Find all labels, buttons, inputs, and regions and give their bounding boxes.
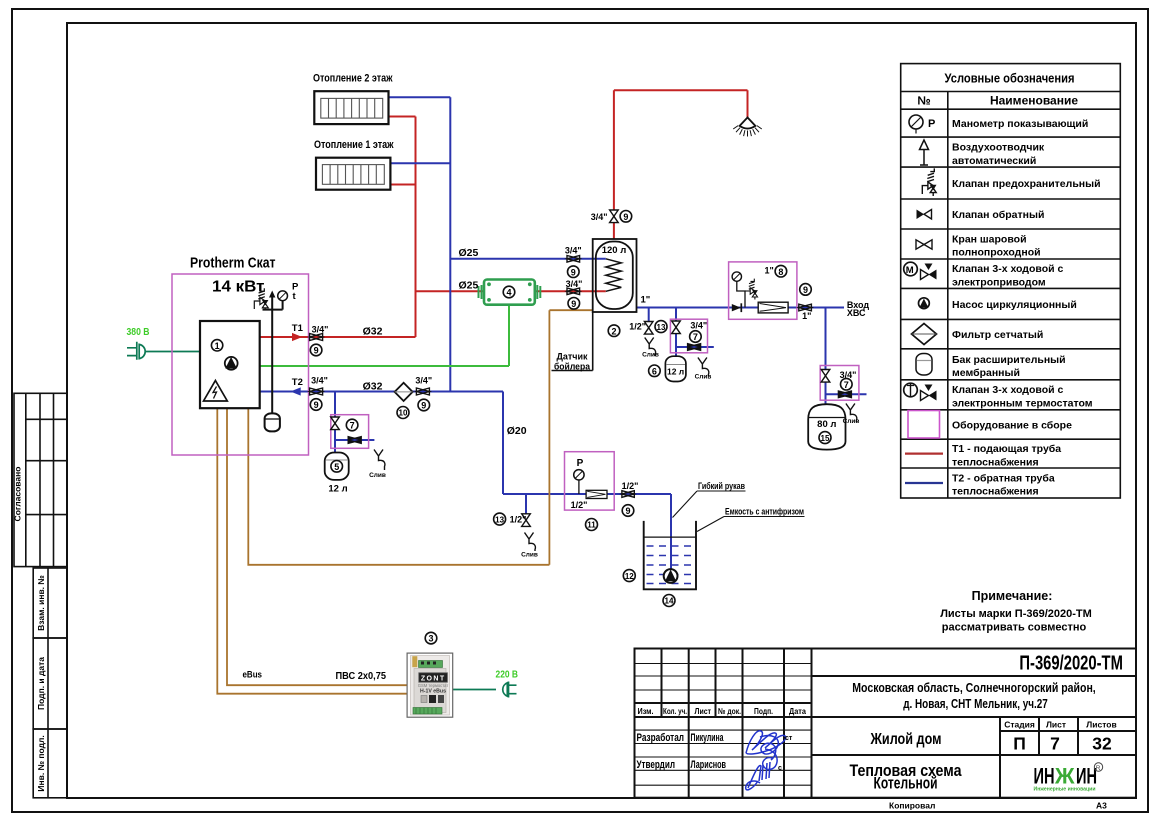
svg-text:Примечание:: Примечание: bbox=[972, 589, 1053, 603]
svg-text:Ø25: Ø25 bbox=[459, 279, 479, 291]
svg-text:3/4": 3/4" bbox=[591, 212, 608, 222]
svg-text:Лист: Лист bbox=[695, 706, 712, 716]
svg-text:Инв. № подл.: Инв. № подл. bbox=[36, 735, 46, 791]
svg-text:3/4": 3/4" bbox=[565, 246, 582, 256]
svg-text:ст: ст bbox=[785, 735, 793, 742]
svg-text:eBus: eBus bbox=[243, 670, 263, 681]
svg-text:Пикулина: Пикулина bbox=[691, 732, 725, 744]
svg-text:1/2": 1/2" bbox=[622, 481, 639, 491]
svg-text:Protherm Скат: Protherm Скат bbox=[190, 256, 276, 272]
svg-text:9: 9 bbox=[623, 212, 628, 222]
svg-text:Копировал: Копировал bbox=[889, 801, 935, 811]
svg-text:Изм.: Изм. bbox=[638, 706, 654, 716]
svg-text:2: 2 bbox=[611, 326, 616, 336]
svg-text:Клапан обратный: Клапан обратный bbox=[952, 209, 1044, 221]
svg-text:12 л: 12 л bbox=[328, 484, 347, 495]
svg-text:1/2": 1/2" bbox=[629, 322, 646, 332]
svg-text:9: 9 bbox=[421, 401, 426, 411]
svg-text:80 л: 80 л bbox=[817, 419, 836, 430]
svg-text:бойлера: бойлера bbox=[554, 362, 591, 372]
svg-text:Гибкий рукав: Гибкий рукав bbox=[698, 481, 745, 492]
svg-text:автоматический: автоматический bbox=[952, 155, 1036, 167]
svg-text:1/2": 1/2" bbox=[510, 515, 527, 525]
svg-text:Лист: Лист bbox=[1046, 720, 1066, 730]
svg-text:Ø32: Ø32 bbox=[363, 326, 383, 338]
svg-text:А3: А3 bbox=[1096, 801, 1107, 811]
svg-text:Дата: Дата bbox=[789, 706, 806, 716]
svg-text:3/4": 3/4" bbox=[311, 376, 328, 386]
svg-text:Слив: Слив bbox=[843, 418, 860, 425]
svg-text:Ø20: Ø20 bbox=[507, 425, 527, 437]
svg-text:Отопление 2 этаж: Отопление 2 этаж bbox=[313, 73, 393, 85]
svg-text:3/4": 3/4" bbox=[415, 376, 432, 386]
svg-text:13: 13 bbox=[495, 515, 504, 524]
svg-text:9: 9 bbox=[314, 346, 319, 356]
svg-text:Наименование: Наименование bbox=[990, 94, 1078, 108]
svg-text:Кол. уч.: Кол. уч. bbox=[663, 706, 687, 716]
svg-text:7: 7 bbox=[844, 380, 849, 390]
svg-text:Слив: Слив bbox=[369, 472, 386, 479]
svg-text:3/4": 3/4" bbox=[840, 370, 857, 380]
svg-text:9: 9 bbox=[803, 285, 808, 295]
svg-text:Ж: Ж bbox=[1054, 764, 1075, 789]
svg-text:Т1 - подающая труба: Т1 - подающая труба bbox=[952, 443, 1061, 455]
svg-text:Клапан 3-х ходовой с: Клапан 3-х ходовой с bbox=[952, 263, 1063, 275]
svg-text:1: 1 bbox=[215, 341, 220, 351]
svg-text:3: 3 bbox=[428, 634, 433, 644]
svg-text:Т2: Т2 bbox=[292, 377, 303, 388]
svg-text:15: 15 bbox=[821, 434, 830, 443]
svg-text:№: № bbox=[917, 94, 930, 108]
svg-text:Бак расширительный: Бак расширительный bbox=[952, 354, 1066, 366]
svg-text:Т2 - обратная труба: Т2 - обратная труба bbox=[952, 473, 1055, 485]
svg-text:14: 14 bbox=[665, 597, 674, 606]
svg-text:Подп.: Подп. bbox=[754, 706, 773, 716]
svg-text:H-1V eBus: H-1V eBus bbox=[420, 688, 446, 694]
svg-text:Фильтр сетчатый: Фильтр сетчатый bbox=[952, 329, 1043, 341]
svg-text:рассматривать совместно: рассматривать совместно bbox=[942, 622, 1087, 634]
svg-text:теплоснабжения: теплоснабжения bbox=[952, 486, 1039, 498]
svg-text:Листов: Листов bbox=[1086, 720, 1116, 730]
svg-text:Котельной: Котельной bbox=[874, 775, 938, 793]
svg-text:Взам. инв. №: Взам. инв. № bbox=[36, 575, 46, 631]
svg-text:10: 10 bbox=[399, 409, 408, 418]
svg-text:Слив: Слив bbox=[695, 374, 712, 381]
svg-text:ИН: ИН bbox=[1034, 764, 1055, 789]
svg-text:Слив: Слив bbox=[521, 552, 538, 559]
svg-text:380 В: 380 В bbox=[127, 327, 150, 338]
svg-text:Московская область, Солнечного: Московская область, Солнечногорский райо… bbox=[852, 680, 1096, 695]
svg-text:Согласовано: Согласовано bbox=[13, 467, 23, 522]
svg-text:9: 9 bbox=[625, 506, 630, 516]
svg-text:6: 6 bbox=[652, 366, 657, 376]
svg-text:П: П bbox=[1013, 734, 1026, 754]
svg-text:Емкость с антифризом: Емкость с антифризом bbox=[725, 507, 804, 518]
svg-text:14 кВт: 14 кВт bbox=[212, 279, 265, 296]
svg-text:Ø32: Ø32 bbox=[363, 381, 383, 393]
svg-text:Отопление 1 этаж: Отопление 1 этаж bbox=[314, 139, 394, 151]
svg-text:с: с bbox=[778, 765, 782, 772]
svg-text:Листы марки П-369/2020-ТМ: Листы марки П-369/2020-ТМ bbox=[940, 608, 1092, 620]
svg-text:32: 32 bbox=[1092, 734, 1112, 754]
svg-text:теплоснабжения: теплоснабжения bbox=[952, 456, 1039, 468]
svg-text:1/2": 1/2" bbox=[571, 500, 588, 510]
svg-text:№ док.: № док. bbox=[718, 706, 741, 716]
svg-text:Оборудование в сборе: Оборудование в сборе bbox=[952, 420, 1072, 432]
svg-text:Лариснов: Лариснов bbox=[691, 759, 727, 771]
svg-text:электронным термостатом: электронным термостатом bbox=[952, 398, 1093, 410]
svg-text:П-369/2020-ТМ: П-369/2020-ТМ bbox=[1019, 653, 1123, 675]
svg-text:1": 1" bbox=[641, 295, 651, 306]
svg-text:7: 7 bbox=[1050, 734, 1060, 754]
svg-text:3/4": 3/4" bbox=[690, 321, 707, 331]
svg-text:Условные обозначения: Условные обозначения bbox=[945, 71, 1075, 86]
svg-text:13: 13 bbox=[657, 323, 666, 332]
svg-text:Ø25: Ø25 bbox=[459, 247, 479, 259]
svg-text:электроприводом: электроприводом bbox=[952, 276, 1046, 288]
svg-text:3/4": 3/4" bbox=[312, 325, 329, 335]
svg-text:5: 5 bbox=[334, 462, 339, 472]
svg-text:GSM термостат: GSM термостат bbox=[418, 683, 449, 688]
svg-text:Клапан 3-х ходовой с: Клапан 3-х ходовой с bbox=[952, 384, 1063, 396]
svg-text:ХВС: ХВС bbox=[847, 308, 866, 318]
svg-text:12 л: 12 л bbox=[667, 367, 684, 377]
svg-text:120 л: 120 л bbox=[602, 245, 627, 256]
svg-text:мембранный: мембранный bbox=[952, 367, 1020, 379]
svg-text:Кран шаровой: Кран шаровой bbox=[952, 234, 1027, 246]
svg-text:9: 9 bbox=[314, 400, 319, 410]
svg-text:9: 9 bbox=[571, 299, 576, 309]
svg-text:Слив: Слив bbox=[642, 352, 659, 359]
svg-text:Подп. и дата: Подп. и дата bbox=[36, 657, 46, 710]
svg-text:полнопроходной: полнопроходной bbox=[952, 247, 1041, 259]
svg-text:Насос циркуляционный: Насос циркуляционный bbox=[952, 299, 1077, 311]
svg-text:4: 4 bbox=[506, 288, 511, 298]
svg-text:1": 1" bbox=[765, 266, 774, 276]
svg-text:д. Новая, СНТ Мельник, уч.27: д. Новая, СНТ Мельник, уч.27 bbox=[903, 696, 1048, 711]
svg-text:ПВС 2х0,75: ПВС 2х0,75 bbox=[336, 670, 387, 682]
svg-text:М: М bbox=[906, 265, 914, 276]
svg-text:ZONT: ZONT bbox=[421, 675, 446, 682]
svg-text:Разработал: Разработал bbox=[637, 732, 685, 744]
svg-text:3/4": 3/4" bbox=[566, 279, 583, 289]
svg-text:Манометр показывающий: Манометр показывающий bbox=[952, 118, 1088, 130]
svg-text:Р: Р bbox=[928, 118, 935, 130]
svg-text:220 В: 220 В bbox=[496, 670, 519, 681]
svg-text:Воздухоотводчик: Воздухоотводчик bbox=[952, 142, 1045, 154]
svg-text:7: 7 bbox=[350, 421, 355, 431]
svg-text:Стадия: Стадия bbox=[1004, 720, 1035, 730]
svg-text:Жилой дом: Жилой дом bbox=[870, 731, 942, 748]
svg-text:11: 11 bbox=[587, 521, 596, 530]
svg-text:Клапан предохранительный: Клапан предохранительный bbox=[952, 178, 1101, 190]
svg-text:8: 8 bbox=[778, 267, 783, 277]
svg-text:12: 12 bbox=[625, 572, 634, 581]
svg-text:Датчик: Датчик bbox=[557, 352, 588, 362]
svg-text:Инженерные инновации: Инженерные инновации bbox=[1034, 787, 1096, 793]
svg-text:P: P bbox=[577, 458, 584, 469]
svg-text:7: 7 bbox=[693, 332, 698, 342]
svg-text:Утвердил: Утвердил bbox=[637, 759, 676, 771]
svg-text:R: R bbox=[1096, 765, 1101, 772]
svg-text:Т1: Т1 bbox=[292, 323, 304, 334]
svg-text:1": 1" bbox=[802, 311, 811, 321]
svg-text:9: 9 bbox=[571, 267, 576, 277]
